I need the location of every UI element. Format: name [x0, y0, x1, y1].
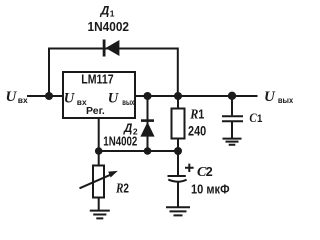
resistor R1 240: [172, 109, 185, 139]
arrow (R2 wiper): [80, 174, 112, 188]
ground (C1): [223, 139, 242, 145]
capacitor C1 plates: [222, 116, 243, 121]
node: D2 top junction: [144, 92, 152, 100]
wire: C2 lower lead: [177, 182, 179, 207]
diode D1 (Д1) 1N4002: triangle: [106, 40, 120, 56]
diode D2 (Д2) 1N4002: triangle: [140, 122, 154, 137]
svg-text:1: 1: [198, 108, 204, 122]
wire: output line: [135, 95, 258, 97]
wire: adjust line horizontal: [99, 150, 178, 152]
svg-text:10 мкФ: 10 мкФ: [191, 182, 230, 197]
label C1: [249, 110, 262, 125]
capacitor C2 bottom plate (curved): [168, 180, 186, 182]
wire: top bus (input to output over D1): [49, 48, 178, 50]
wire: ADJ pin vertical (Рег. to R2): [98, 118, 100, 165]
wire: C2 upper lead: [177, 151, 179, 176]
wire: input line: [27, 95, 63, 97]
wire: C1 upper lead: [231, 96, 233, 115]
svg-text:1: 1: [110, 9, 115, 19]
ground (C2): [166, 207, 190, 215]
label R1: [189, 105, 204, 121]
node: C1 junction: [228, 92, 236, 100]
wire: R2 bottom lead: [98, 198, 100, 211]
node: D2 bottom junction: [144, 147, 152, 155]
svg-text:вх: вх: [18, 95, 28, 105]
svg-text:Д: Д: [100, 4, 110, 18]
svg-text:U: U: [264, 89, 276, 105]
svg-text:LM117: LM117: [81, 73, 113, 87]
wire: R1 branch vertical: [177, 96, 179, 151]
resistor R2 (variable) body: [93, 166, 104, 198]
capacitor C2 (electrolytic) top plate: [168, 175, 186, 177]
svg-text:U: U: [6, 89, 18, 105]
svg-text:2: 2: [206, 165, 213, 179]
svg-text:1: 1: [257, 112, 262, 125]
node: adjust junction at R2: [95, 147, 103, 155]
wire: right vertical from top bus to output line: [177, 48, 179, 97]
svg-text:240: 240: [188, 122, 206, 138]
svg-text:U: U: [108, 91, 120, 107]
svg-text:Рег.: Рег.: [86, 105, 105, 117]
svg-text:R: R: [115, 180, 123, 195]
diode D2 (Д2) 1N4002: cathode bar: [141, 119, 154, 122]
wire: C1 lower lead: [231, 122, 233, 138]
svg-text:U: U: [64, 91, 76, 107]
IC U1 LM117 body: [63, 72, 135, 118]
plus sign (C2 polarity): [185, 164, 194, 172]
label R2: [115, 180, 129, 195]
ground (R2): [90, 211, 110, 219]
svg-text:R: R: [189, 105, 198, 121]
svg-text:Д: Д: [123, 123, 132, 135]
wire: D2 branch vertical: [147, 96, 149, 151]
svg-text:вых: вых: [122, 97, 134, 107]
svg-text:2: 2: [123, 183, 129, 196]
node: R1 bottom junction: [174, 147, 182, 155]
node: input junction: [45, 92, 53, 100]
svg-text:вых: вых: [278, 95, 294, 105]
diode D1 (Д1) 1N4002: cathode bar: [103, 40, 106, 57]
svg-text:1N4002: 1N4002: [103, 135, 137, 149]
wire: left vertical from top bus to input line: [48, 48, 50, 97]
svg-text:1N4002: 1N4002: [88, 19, 130, 34]
node: R1 top junction: [174, 92, 182, 100]
